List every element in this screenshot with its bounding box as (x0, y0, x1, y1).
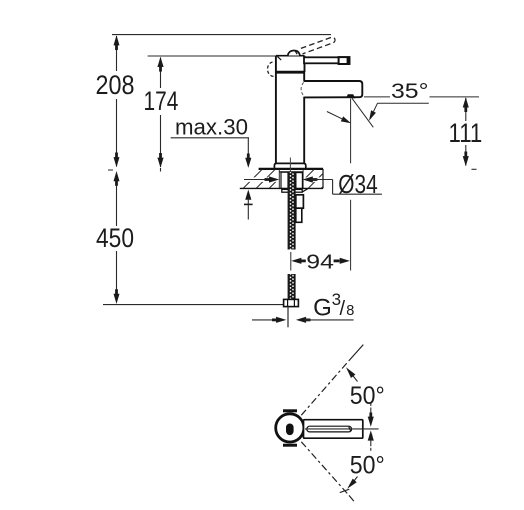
svg-text:/: / (340, 298, 346, 320)
wire: 450 bottom extension line (103, 304, 290, 306)
flex hose lower (288, 274, 296, 299)
node dim-208 (96, 35, 135, 170)
svg-text:8: 8 (346, 303, 354, 319)
svg-text:Ø34: Ø34 (338, 169, 377, 199)
hole interior: shank boxes (280, 172, 303, 188)
inner slot (286, 424, 294, 436)
circle bottom flat (283, 444, 297, 447)
base flange (274, 163, 305, 168)
svg-text:111: 111 (449, 118, 483, 148)
faucet centerline (289, 158, 291, 173)
deck top line (259, 168, 323, 170)
faucet body right edge upper (303, 72, 305, 81)
node dim-174 (144, 57, 179, 172)
hole left wall (278, 170, 280, 189)
hole right wall (302, 170, 304, 189)
body-spout intersection arc (301, 82, 304, 95)
mounting nut lower (296, 208, 302, 222)
lever slot top view (307, 426, 352, 432)
svg-text:G: G (313, 294, 332, 321)
node dim-50-lower (340, 430, 385, 492)
deck bottom line (240, 187, 323, 189)
upper 50 ray (301, 345, 363, 416)
wheel circle (276, 414, 304, 442)
svg-text:50°: 50° (350, 452, 385, 480)
lever handle (horizontal) (304, 56, 350, 64)
node dim-G38 (252, 290, 354, 323)
dashed lever rear end (267, 62, 274, 76)
centerline (305, 428, 379, 430)
deck right closure (322, 169, 324, 189)
node dim-o34 (244, 169, 382, 199)
lower 50 ray (301, 442, 354, 501)
faucet body left edge (275, 56, 277, 164)
aerator projection line (350, 99, 352, 164)
svg-text:208: 208 (96, 70, 135, 100)
svg-text:max.30: max.30 (175, 114, 248, 139)
node dim-max30 (171, 114, 253, 219)
dashed raised lever (301, 37, 335, 54)
wire: 174 extension line (148, 55, 276, 57)
wire: 35deg angled line (352, 98, 373, 127)
flex hose upper (288, 172, 296, 250)
wire: 208 top extension line (112, 34, 331, 36)
svg-text:174: 174 (144, 86, 179, 116)
wire: left 35deg arrow (327, 112, 344, 120)
mounting nut (296, 195, 304, 208)
G3/8 connector nut (284, 299, 299, 306)
svg-text:35°: 35° (391, 80, 429, 103)
circle top flat (283, 409, 297, 412)
faucet body right edge lower (303, 97, 305, 164)
lever top view (304, 420, 363, 439)
node dim-35deg (327, 80, 479, 128)
node dim-94 (291, 250, 350, 273)
washer under deck (282, 189, 302, 192)
svg-text:94: 94 (306, 250, 334, 273)
svg-text:50°: 50° (350, 382, 385, 410)
connector tail line (287, 307, 289, 328)
node dim-50-upper (346, 367, 385, 427)
aerator nub (346, 94, 355, 98)
lever pivot dome (288, 50, 300, 55)
svg-text:450: 450 (96, 223, 134, 253)
node dim-450 (96, 171, 134, 304)
node dim-111 (449, 97, 483, 169)
spout (304, 81, 363, 97)
cartridge box U1 (275, 56, 305, 72)
